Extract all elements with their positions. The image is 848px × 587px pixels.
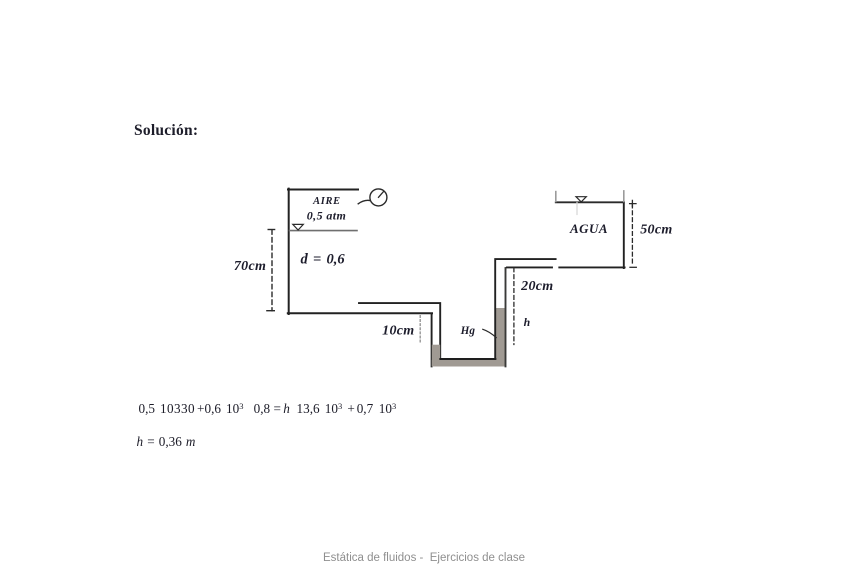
right tank surface marker (nabla) (576, 197, 586, 202)
svg-text:AGUA: AGUA (569, 221, 608, 236)
tube upper wall from left tank, turning down as left-limb right wall (359, 303, 440, 357)
right tank rim tick right (623, 191, 625, 202)
mercury fill right limb (496, 308, 505, 366)
Hg pointer line (483, 329, 496, 337)
svg-text:20cm: 20cm (520, 279, 553, 294)
dimension 50cm dashed line (631, 204, 633, 265)
dimension 10cm dotted line (419, 316, 421, 345)
tube lower wall (U to right tank) (507, 266, 552, 268)
mercury fill bottom band (432, 360, 506, 367)
right tank right wall (623, 202, 625, 268)
svg-text:AIRE: AIRE (312, 196, 341, 207)
svg-text:d = 0,6: d = 0,6 (301, 252, 346, 268)
left tank top wall (288, 189, 358, 191)
svg-text:h: h (524, 315, 531, 329)
heading "Solución:" (134, 122, 198, 140)
left tank liquid surface line (290, 230, 358, 232)
left U-limb left wall (431, 314, 433, 367)
U-tube inner bottom wall (440, 358, 495, 360)
right U-limb right wall (505, 268, 507, 366)
right U-limb left wall turning right into tube upper wall (495, 259, 555, 358)
svg-text:70cm: 70cm (234, 259, 266, 274)
left tank bottom wall / tube lower wall (288, 312, 432, 314)
right tank bottom wall (559, 266, 624, 268)
equation line (0, 400, 1, 402)
footer (0, 552, 848, 564)
left tank surface marker (nabla) (293, 224, 304, 230)
right tank rim tick left (555, 192, 557, 202)
right tank water surface line (556, 201, 624, 203)
faint drip line under marker (576, 203, 578, 215)
result line h = 0,36 m (137, 434, 196, 450)
dimension 70cm bottom cap (267, 310, 274, 312)
svg-text:10cm: 10cm (382, 323, 414, 338)
svg-text:50cm: 50cm (640, 223, 672, 238)
dimension 50cm top arrow (630, 200, 636, 206)
svg-text:Hg: Hg (460, 325, 476, 337)
pressure gauge needle (379, 192, 384, 198)
pressure gauge circle (370, 189, 387, 206)
mercury fill left limb (432, 345, 440, 367)
dimension 70cm top cap (268, 229, 274, 231)
dimension 20cm / h dashed line (513, 268, 515, 345)
dimension 70cm dashed line (271, 230, 273, 311)
pressure gauge connector line (358, 200, 370, 203)
dimension 50cm bottom cap (630, 266, 636, 268)
svg-text:0,5 atm: 0,5 atm (307, 208, 346, 222)
left tank left wall (288, 189, 290, 314)
